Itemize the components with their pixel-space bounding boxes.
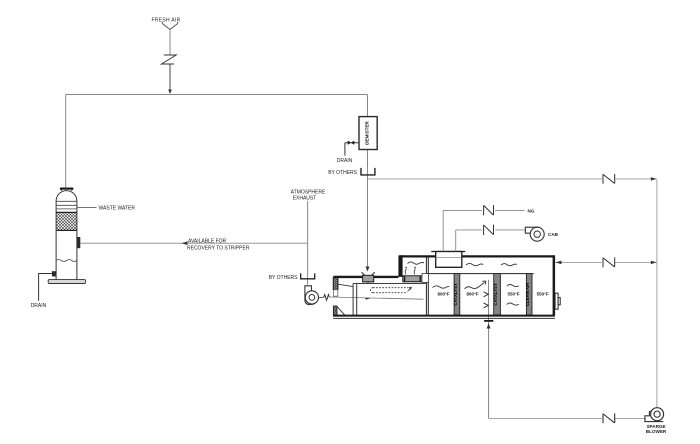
inlet transition top diagonal (338, 284, 353, 286)
svg-text:800°F: 800°F (437, 292, 449, 297)
oxidizer top edge left (333, 276, 398, 278)
svg-text:DRAIN: DRAIN (31, 303, 47, 309)
catalyst bed 3 (526, 274, 532, 316)
inlet flow arrow (366, 298, 372, 300)
oxidizer skid line (333, 317, 555, 319)
svg-text:CATALYST: CATALYST (493, 283, 498, 306)
svg-text:CLEAN AIR: CLEAN AIR (525, 282, 530, 307)
chamber 2 wavy arrow (465, 282, 485, 288)
sparge bottom line (489, 417, 646, 419)
right riser (656, 179, 658, 408)
left chamber top (353, 283, 426, 285)
svg-text:BY OTHERS: BY OTHERS (269, 275, 298, 281)
svg-text:800°F: 800°F (466, 292, 478, 297)
penthouse left wall (398, 255, 402, 277)
stack box inner line (436, 257, 462, 259)
stripper side outlet nozzle (77, 237, 80, 248)
oxidizer outlet flange (555, 293, 558, 309)
stripper dome (56, 191, 77, 202)
flex connector (324, 295, 330, 301)
oxidizer top edge right (400, 255, 554, 257)
stripper shell (56, 201, 77, 279)
NG line horizontal (443, 209, 524, 211)
svg-text:550°F: 550°F (507, 292, 519, 297)
stripper distributor lines (56, 201, 77, 209)
sparge line up arrow (487, 324, 491, 329)
svg-text:CATALYST: CATALYST (453, 283, 458, 306)
stripper liquid level wavy line (56, 260, 77, 262)
chamber 1 squiggle (433, 286, 450, 288)
stack box (436, 252, 462, 268)
break symbol N on CAB line (484, 225, 494, 235)
sparge injection line vertical (488, 280, 490, 419)
break symbol N on bypass line (603, 174, 615, 184)
exhaust line right arrow (651, 261, 657, 264)
svg-text:NG: NG (528, 209, 535, 214)
flame envelope arrow (408, 287, 412, 291)
wire fresh air riser upper (169, 30, 171, 55)
by others bracket (atmosphere exhaust) (301, 273, 315, 278)
svg-text:DEMISTER: DEMISTER (365, 120, 370, 144)
wire fresh air riser lower (169, 64, 171, 93)
burner B2 port through wall (422, 274, 429, 283)
fresh air intake funnel (162, 22, 177, 30)
svg-text:AVAILABLE FOR: AVAILABLE FOR (188, 239, 227, 245)
line break symbol Z on fresh air line (162, 55, 177, 64)
plenum squiggle 2 (501, 264, 517, 266)
burner B1 inlet flare (362, 272, 375, 275)
break symbol N on sparge line (603, 413, 615, 423)
penthouse squiggle (408, 262, 425, 264)
demister drain piping (345, 143, 359, 156)
exhaust line left arrow (556, 261, 562, 265)
wire stripper feed riser (65, 95, 67, 188)
mid wall upper (426, 258, 428, 274)
by others bracket (demister) (361, 168, 375, 175)
chamber 3 squiggle upper (507, 285, 519, 287)
demister drain valve (348, 141, 354, 144)
junction arrow onto header (168, 90, 172, 95)
plenum squiggle right of stack (466, 263, 483, 265)
inlet flange plate (333, 290, 337, 296)
atmosphere exhaust riser (307, 201, 309, 285)
svg-text:BY OTHERS: BY OTHERS (328, 170, 357, 176)
inlet transition bottom diagonal (337, 306, 345, 315)
svg-text:EXHAUST: EXHAUST (293, 195, 317, 201)
burner B1 discharge stub (367, 282, 369, 284)
catalyst bed 1 (454, 274, 460, 316)
svg-text:FRESH AIR: FRESH AIR (151, 18, 180, 24)
exhaust blower (305, 286, 314, 305)
mid wall lower (426, 282, 428, 315)
recovery flow arrow (182, 241, 188, 245)
recovery line (80, 242, 307, 244)
bypass corner arrow (651, 177, 657, 180)
wire to oxidizer inlet (330, 297, 424, 299)
waste water leader (77, 207, 97, 209)
demister outlet downcomer lower (367, 150, 369, 271)
break symbol N on NG line (484, 205, 494, 215)
wire top header (66, 94, 368, 96)
sparge arrows in chamber (484, 292, 489, 308)
oxidizer inlet upper flange (333, 278, 338, 290)
plenum floor / chamber top (429, 273, 534, 275)
wire blower outlet (319, 296, 324, 298)
CAB blower (525, 227, 538, 233)
oxidizer right wall (553, 255, 556, 315)
stripper bottom drain nozzle (52, 271, 56, 276)
svg-text:RECOVERY TO STRIPPER: RECOVERY TO STRIPPER (187, 245, 250, 251)
burner B2 (403, 276, 422, 282)
oxidizer inlet lower flange (333, 306, 337, 315)
burner B2 flame arrows (405, 267, 406, 274)
oxidizer outlet tab (558, 298, 560, 305)
svg-text:ATMOSPHERE: ATMOSPHERE (291, 189, 326, 195)
NG line vertical (442, 210, 444, 251)
flame envelope dashed (370, 288, 408, 293)
CAB line vertical (455, 230, 457, 252)
svg-text:WASTE WATER: WASTE WATER (99, 205, 136, 211)
oxidizer bottom edge (333, 315, 555, 317)
stripper base flange (48, 280, 85, 284)
burner B1 (363, 275, 374, 282)
svg-text:550°F: 550°F (537, 292, 549, 297)
svg-text:BLOWER: BLOWER (646, 429, 667, 434)
sparge line crossbar (484, 320, 493, 322)
sparge blower (645, 411, 663, 422)
demister bypass line to right (368, 178, 656, 180)
stack box flange (431, 251, 465, 253)
svg-text:CAB: CAB (548, 232, 559, 237)
oxidizer exhaust line (555, 261, 657, 263)
stripper packing bed (56, 212, 77, 230)
demister box (359, 117, 377, 150)
demister inlet riser (367, 95, 369, 117)
svg-text:DRAIN: DRAIN (337, 158, 353, 164)
CAB line horizontal (456, 229, 526, 231)
chamber 3 squiggle lower (507, 303, 519, 305)
catalyst bed 2 (494, 274, 501, 316)
stripper top cap (60, 188, 73, 190)
break symbol N on exhaust line (603, 257, 615, 267)
drain line (39, 274, 52, 301)
left chamber inner wall (353, 284, 357, 316)
